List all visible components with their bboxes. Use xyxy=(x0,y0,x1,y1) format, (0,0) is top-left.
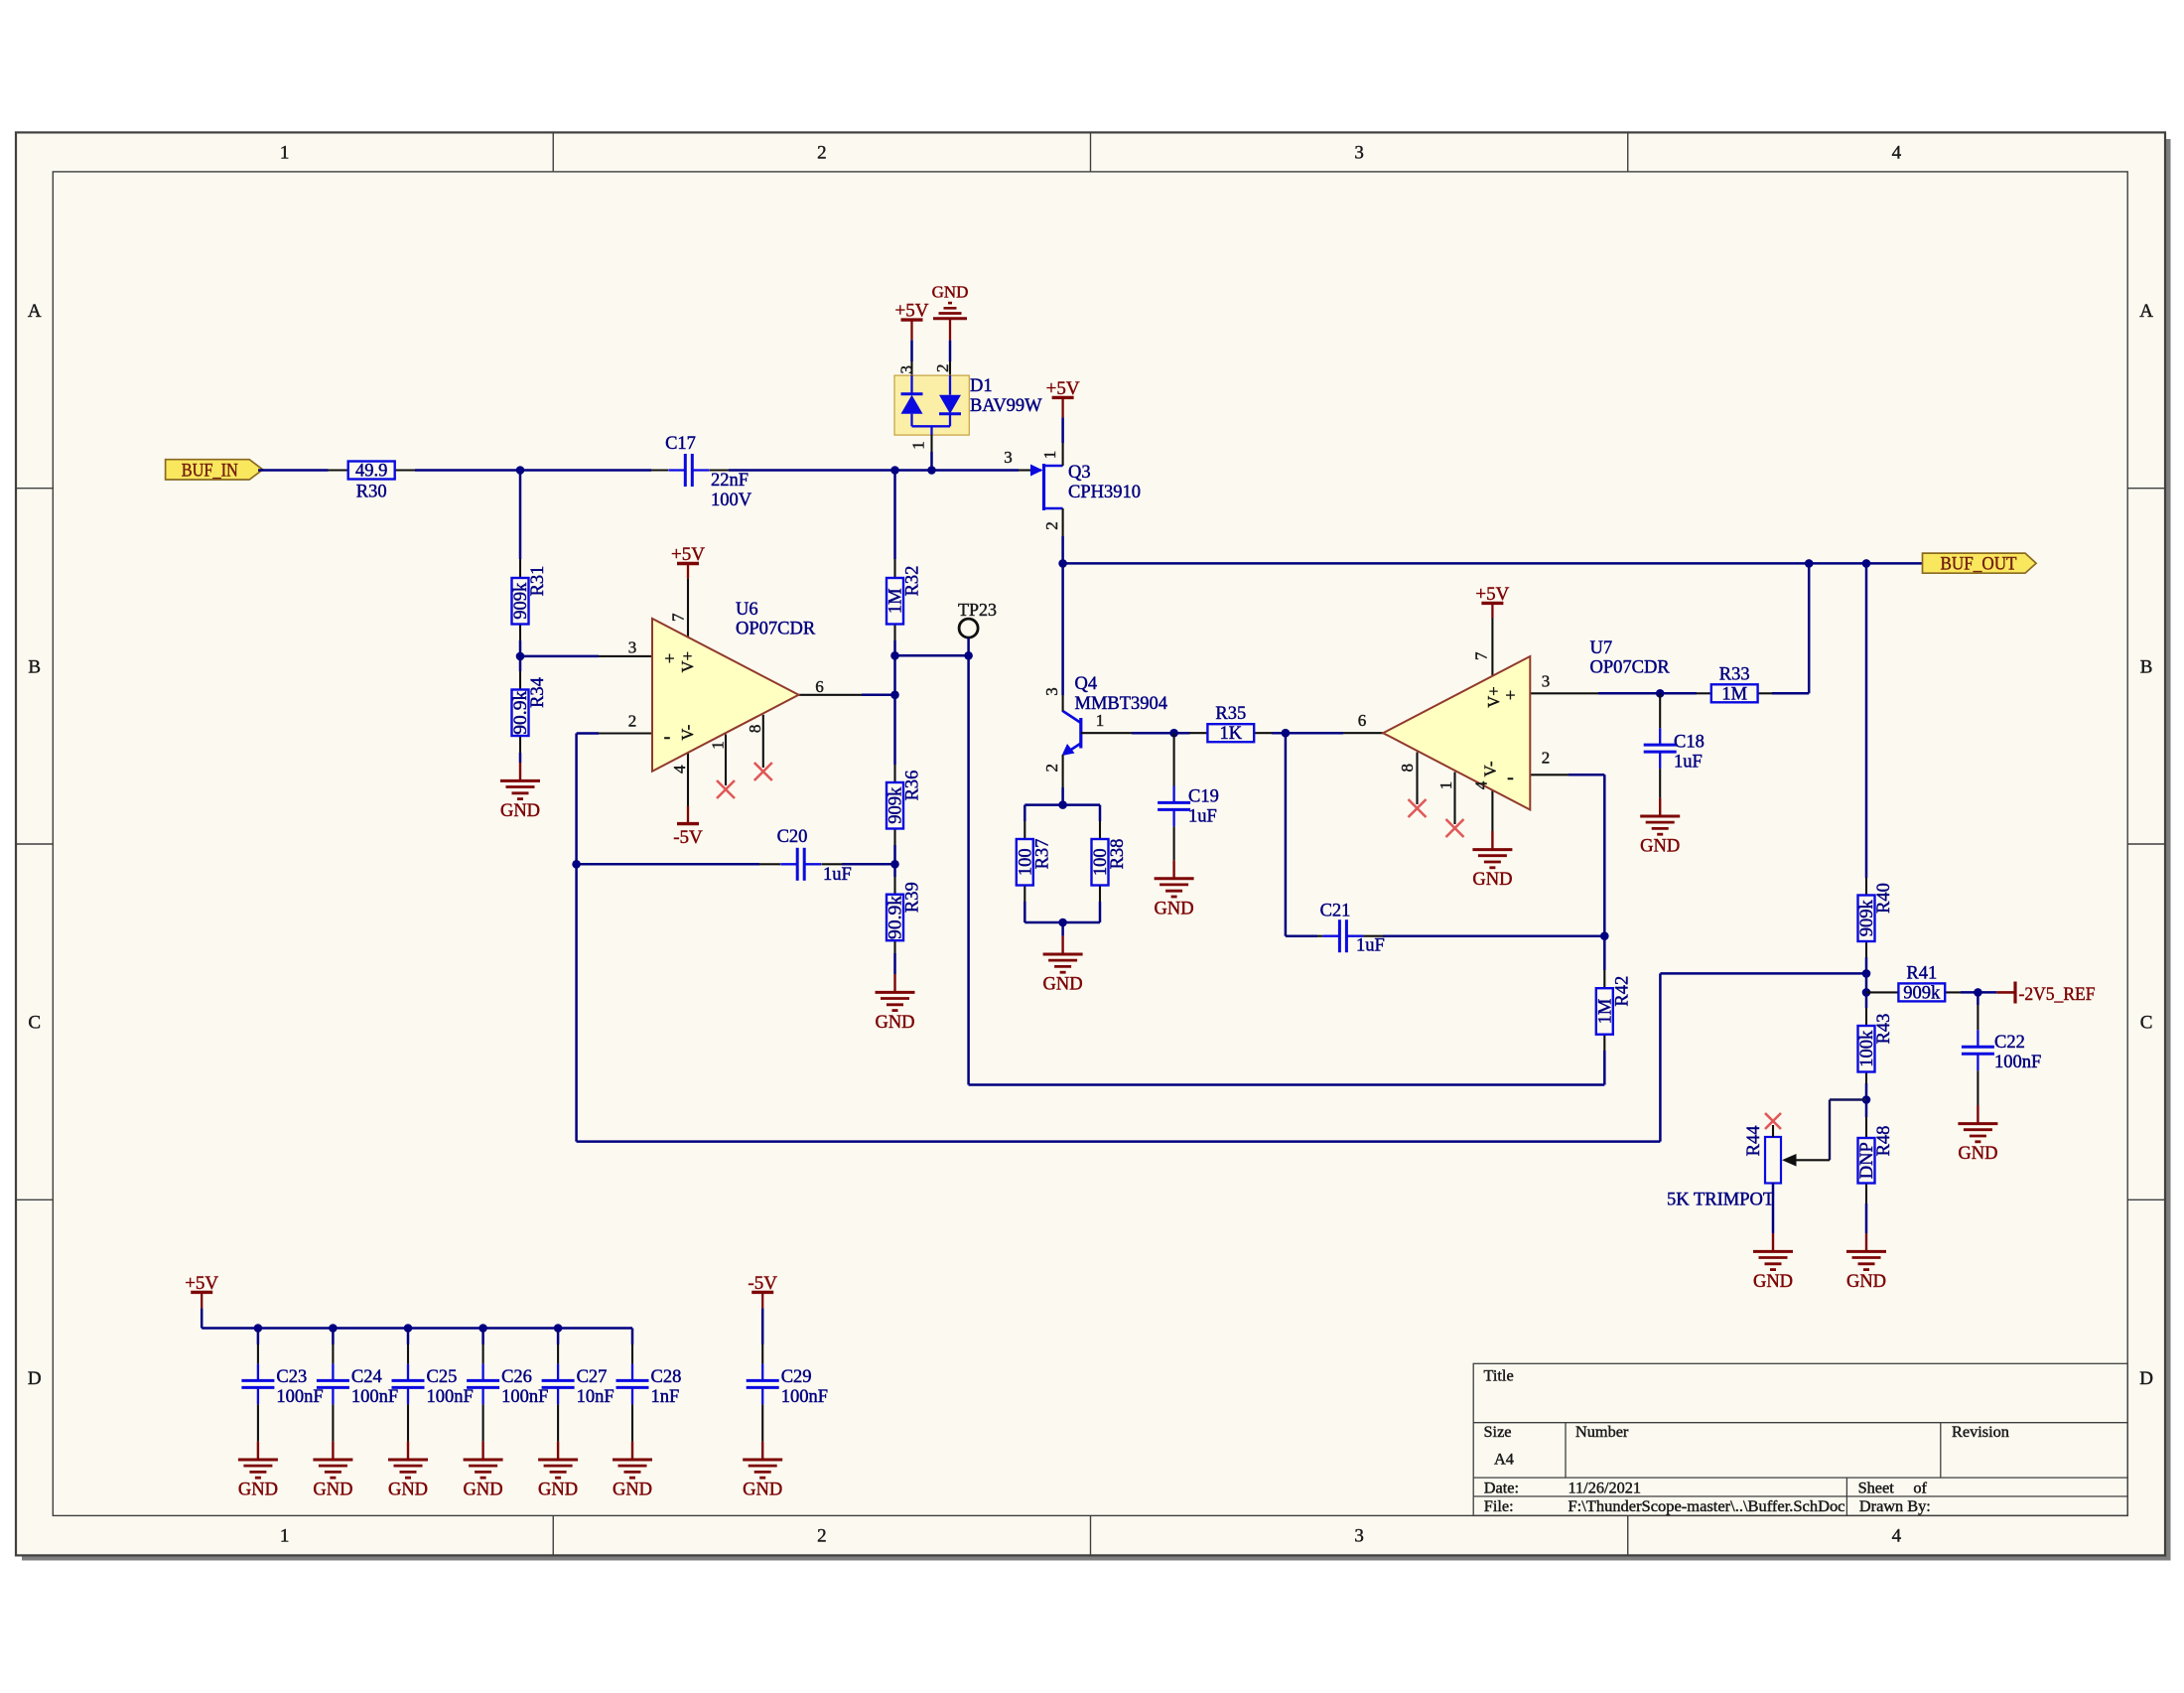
ground GND (C25) xyxy=(388,1442,428,1500)
wire Q4 base to R35 xyxy=(1132,732,1190,735)
junction R33 tap xyxy=(1805,559,1814,568)
svg-text:8: 8 xyxy=(1398,764,1417,773)
resistor R39 90.9k xyxy=(887,877,923,953)
svg-text:GND: GND xyxy=(500,801,540,821)
wire R48 to GND xyxy=(1865,1203,1868,1233)
svg-text:1M: 1M xyxy=(1721,684,1747,704)
ground GND (C19) xyxy=(1155,860,1194,918)
svg-text:GND: GND xyxy=(1846,1272,1886,1292)
svg-text:+: + xyxy=(664,648,674,668)
junction trimpot branch xyxy=(1862,1095,1871,1104)
wire +5V to D1 pin3 xyxy=(910,341,913,361)
svg-text:909k: 909k xyxy=(1903,983,1941,1003)
wire R32 to R36 xyxy=(893,640,896,765)
svg-text:C19: C19 xyxy=(1188,787,1219,807)
junction U6 pin3 node xyxy=(516,652,525,661)
svg-text:-5V: -5V xyxy=(748,1273,777,1294)
svg-text:4: 4 xyxy=(1892,1526,1902,1547)
svg-text:GND: GND xyxy=(1155,899,1194,918)
wire rail to C24 xyxy=(332,1329,335,1345)
svg-text:TRIMPOT: TRIMPOT xyxy=(1694,1191,1774,1210)
svg-text:Sheet: Sheet xyxy=(1858,1478,1895,1496)
svg-text:BUF_IN: BUF_IN xyxy=(182,460,238,481)
wire R44 to GND xyxy=(1772,1184,1775,1234)
power +5V (D1 pin3) xyxy=(895,301,929,341)
svg-text:A: A xyxy=(28,301,42,322)
svg-text:Number: Number xyxy=(1575,1422,1629,1441)
power +5V (U7 pin7) xyxy=(1475,584,1509,618)
svg-text:V-: V- xyxy=(1481,761,1500,776)
svg-text:GND: GND xyxy=(464,1481,503,1500)
svg-text:-2V5_REF: -2V5_REF xyxy=(2019,985,2096,1005)
transistor Q3 CPH3910 xyxy=(1004,443,1141,536)
svg-text:Revision: Revision xyxy=(1952,1422,2009,1441)
svg-text:R44: R44 xyxy=(1744,1125,1764,1156)
svg-text:1nF: 1nF xyxy=(651,1387,680,1407)
svg-text:CPH3910: CPH3910 xyxy=(1068,483,1141,502)
wire input node down to R32 xyxy=(893,471,896,560)
test point TP23 xyxy=(895,600,998,655)
svg-text:R38: R38 xyxy=(1108,839,1128,870)
svg-text:C26: C26 xyxy=(501,1367,532,1387)
resistor R32 1M xyxy=(887,559,923,640)
capacitor C22 100nF xyxy=(1962,992,2041,1105)
wire D1 pin1 to input node xyxy=(930,452,933,471)
svg-text:+5V: +5V xyxy=(1046,378,1080,399)
resistor R43 100k xyxy=(1857,1008,1894,1083)
resistor R36 909k xyxy=(887,765,923,845)
svg-text:1: 1 xyxy=(280,143,290,164)
sheet drop shadow xyxy=(2166,139,2171,1560)
svg-text:2: 2 xyxy=(817,143,827,164)
svg-text:3: 3 xyxy=(1042,687,1061,696)
wire R31 to R34 xyxy=(519,640,522,671)
junction C19 tap xyxy=(1169,729,1178,738)
wire R41 to C22 xyxy=(1961,991,1978,994)
svg-text:GND: GND xyxy=(538,1481,578,1500)
capacitor C18 1uF xyxy=(1644,693,1705,797)
svg-text:BUF_OUT: BUF_OUT xyxy=(1941,554,2017,574)
svg-text:B: B xyxy=(28,656,41,677)
ground GND (R37/R38) xyxy=(1043,936,1083,995)
power -5V (C29) xyxy=(748,1273,777,1309)
title block text xyxy=(1484,1366,2009,1515)
svg-text:A4: A4 xyxy=(1494,1450,1514,1469)
junction C23 tap xyxy=(254,1324,263,1333)
svg-text:GND: GND xyxy=(1753,1272,1793,1292)
svg-text:V+: V+ xyxy=(1484,686,1503,707)
ground GND (C24) xyxy=(313,1442,352,1500)
wire rail to C26 xyxy=(481,1329,484,1345)
junction C18 tap xyxy=(1656,689,1665,698)
svg-text:3: 3 xyxy=(1354,1526,1364,1547)
svg-text:10nF: 10nF xyxy=(577,1387,614,1407)
svg-text:R33: R33 xyxy=(1719,664,1750,684)
svg-text:4: 4 xyxy=(670,765,689,774)
svg-text:GND: GND xyxy=(1472,870,1512,890)
svg-text:MMBT3904: MMBT3904 xyxy=(1075,694,1168,714)
svg-text:2: 2 xyxy=(1042,764,1061,773)
junction C20 left on feedback xyxy=(572,860,581,869)
junction C26 tap xyxy=(478,1324,487,1333)
resistor R37 100 xyxy=(1016,821,1052,902)
svg-text:100nF: 100nF xyxy=(781,1387,828,1407)
svg-text:100nF: 100nF xyxy=(501,1387,548,1407)
ground GND (C23) xyxy=(238,1442,278,1500)
svg-text:D: D xyxy=(2139,1368,2153,1389)
svg-text:GND: GND xyxy=(613,1481,652,1500)
svg-text:R42: R42 xyxy=(1612,976,1632,1007)
wire C17 to Q3 gate xyxy=(729,469,1019,472)
svg-text:+5V: +5V xyxy=(895,301,929,322)
svg-text:Date:: Date: xyxy=(1484,1478,1519,1496)
svg-text:R34: R34 xyxy=(528,677,548,708)
junction R32 tap xyxy=(890,466,899,475)
resistor R31 909k xyxy=(511,559,548,640)
svg-text:C23: C23 xyxy=(276,1367,307,1387)
svg-text:Q3: Q3 xyxy=(1068,463,1091,483)
wire U6 pin2 horizontal xyxy=(577,732,599,735)
resistor R48 DNP xyxy=(1857,1117,1894,1203)
svg-text:5K: 5K xyxy=(1667,1191,1690,1210)
svg-text:-: - xyxy=(664,726,671,748)
junction node IN+ xyxy=(516,466,525,475)
capacitor C19 1uF xyxy=(1158,733,1219,860)
power +5V (decoupling rail) xyxy=(185,1273,218,1309)
svg-text:R48: R48 xyxy=(1874,1126,1894,1157)
resistor R35 1K xyxy=(1190,704,1273,744)
wire R38 bottom stub xyxy=(1099,902,1102,922)
wire +5V to Q3 drain xyxy=(1061,417,1064,443)
svg-text:1uF: 1uF xyxy=(1356,936,1385,956)
wire Q4 emitter to R37/R38 xyxy=(1061,787,1064,805)
svg-text:+: + xyxy=(1505,685,1515,705)
capacitor C27 10nF xyxy=(542,1344,614,1442)
svg-text:R32: R32 xyxy=(903,566,923,597)
svg-text:of: of xyxy=(1913,1478,1927,1496)
wire R38 top stub xyxy=(1099,805,1102,821)
junction C24 tap xyxy=(329,1324,338,1333)
svg-text:Size: Size xyxy=(1484,1422,1512,1441)
wire C20 left xyxy=(577,863,759,866)
ground GND (C28) xyxy=(613,1442,652,1500)
title block xyxy=(1473,1363,2127,1515)
svg-text:100V: 100V xyxy=(711,491,752,510)
svg-text:3: 3 xyxy=(1004,448,1013,467)
wire GND to D1 pin2 xyxy=(949,341,952,361)
junction C20 right xyxy=(890,860,899,869)
capacitor C24 100nF xyxy=(317,1344,398,1442)
resistor R38 100 xyxy=(1091,821,1128,902)
svg-text:-: - xyxy=(1507,767,1514,788)
svg-text:GND: GND xyxy=(743,1481,782,1500)
ground GND (C29) xyxy=(743,1442,782,1500)
svg-text:C29: C29 xyxy=(781,1367,812,1387)
no-connect X pin8 U7 xyxy=(1409,799,1427,817)
svg-text:BAV99W: BAV99W xyxy=(970,396,1042,416)
wire BUF_IN to R30 xyxy=(258,469,329,472)
wire junction to U6 pin3 xyxy=(520,655,599,658)
wire R35 to U7 output xyxy=(1272,732,1343,735)
svg-text:100nF: 100nF xyxy=(351,1387,398,1407)
no-connect X pin1 U7 xyxy=(1446,819,1464,837)
wire output line to BUF_OUT xyxy=(1063,562,1923,565)
svg-text:C28: C28 xyxy=(651,1367,682,1387)
svg-text:C: C xyxy=(28,1013,41,1034)
svg-text:GND: GND xyxy=(1640,837,1680,857)
ground GND (R34) xyxy=(500,763,540,821)
wire Q4 collector xyxy=(1061,563,1064,695)
svg-text:R35: R35 xyxy=(1215,704,1246,724)
svg-text:2: 2 xyxy=(628,712,637,731)
wire Q3 source to output node xyxy=(1061,536,1064,563)
svg-text:GND: GND xyxy=(238,1481,278,1500)
junction C21 left tap xyxy=(1282,729,1291,738)
svg-text:OP07CDR: OP07CDR xyxy=(736,620,816,639)
svg-text:D: D xyxy=(28,1368,42,1389)
power -5V (U6 pin4) xyxy=(673,806,703,848)
wire R37/R38 bottom rail xyxy=(1024,921,1100,924)
capacitor C21 1uF xyxy=(1286,902,1604,956)
ground GND (U7 pin4) xyxy=(1472,831,1512,890)
resistor R30 49.9 xyxy=(329,462,416,502)
svg-text:7: 7 xyxy=(1472,651,1491,660)
junction R40 tap xyxy=(1862,559,1871,568)
svg-text:TP23: TP23 xyxy=(958,600,997,620)
wire feedback to R40/R41 node xyxy=(1660,972,1866,975)
junction C22 tap xyxy=(1974,988,1982,997)
wire R36 to R39 xyxy=(893,845,896,877)
wire R33 up to output xyxy=(1808,563,1811,693)
wire rail to C25 xyxy=(407,1329,410,1345)
svg-text:-5V: -5V xyxy=(673,827,703,848)
svg-text:C18: C18 xyxy=(1674,733,1705,753)
resistor R33 1M xyxy=(1697,664,1772,704)
wire C20 right xyxy=(842,863,895,866)
svg-text:6: 6 xyxy=(1358,711,1367,730)
svg-text:Q4: Q4 xyxy=(1075,674,1098,694)
junction R41 tap xyxy=(1862,988,1871,997)
svg-text:D1: D1 xyxy=(970,376,993,396)
inner frame xyxy=(53,172,2127,1516)
wire input node down to R31 xyxy=(519,471,522,560)
svg-text:Title: Title xyxy=(1484,1366,1514,1385)
transistor Q4 MMBT3904 xyxy=(1042,674,1167,787)
op-amp U7 OP07CDR xyxy=(1343,618,1670,831)
svg-text:3: 3 xyxy=(628,638,637,657)
svg-text:B: B xyxy=(2140,656,2153,677)
wire R40 to R43 xyxy=(1865,957,1868,1008)
svg-text:1: 1 xyxy=(1436,781,1455,790)
svg-text:6: 6 xyxy=(815,677,824,696)
junction pin6 node xyxy=(890,691,899,700)
svg-text:1: 1 xyxy=(709,741,728,750)
svg-text:11/26/2021: 11/26/2021 xyxy=(1569,1478,1642,1496)
svg-text:C20: C20 xyxy=(777,827,808,847)
junction C27 tap xyxy=(554,1324,563,1333)
ground GND (C27) xyxy=(538,1442,578,1500)
wire U7 pin2 right xyxy=(1569,774,1604,776)
svg-text:C22: C22 xyxy=(1994,1033,2025,1053)
svg-text:C21: C21 xyxy=(1320,902,1351,921)
svg-text:OP07CDR: OP07CDR xyxy=(1590,658,1671,678)
capacitor C23 100nF xyxy=(241,1344,323,1442)
svg-text:100nF: 100nF xyxy=(1994,1053,2041,1072)
svg-text:GND: GND xyxy=(1958,1144,1997,1164)
wire junction to R42 xyxy=(1603,936,1606,970)
no-connect X pin8 U6 xyxy=(754,763,772,780)
svg-text:49.9: 49.9 xyxy=(355,462,387,482)
trimpot R44 5K xyxy=(1667,1125,1830,1210)
wire C28 corner xyxy=(631,1329,634,1345)
svg-text:1: 1 xyxy=(280,1526,290,1547)
wire +5V rail xyxy=(202,1327,632,1330)
wire R43 to R48 xyxy=(1865,1083,1868,1117)
capacitor C20 1uF xyxy=(759,827,852,885)
svg-text:22nF: 22nF xyxy=(711,471,749,491)
svg-text:R31: R31 xyxy=(528,566,548,597)
svg-text:4: 4 xyxy=(1472,780,1491,789)
wire R42 bottom run xyxy=(969,1083,1605,1086)
svg-text:100nF: 100nF xyxy=(427,1387,474,1407)
wire rail to GND xyxy=(1061,922,1064,936)
svg-text:GND: GND xyxy=(875,1013,914,1033)
wire U6 pin6 to node xyxy=(862,694,895,697)
wire -5V stub xyxy=(761,1309,764,1344)
port BUF_OUT xyxy=(1923,553,2037,574)
capacitor C29 100nF xyxy=(747,1344,828,1442)
svg-text:R39: R39 xyxy=(903,882,923,913)
junction feedback tap xyxy=(1862,969,1871,978)
svg-text:R30: R30 xyxy=(356,483,387,502)
svg-text:+5V: +5V xyxy=(185,1273,218,1294)
svg-text:C25: C25 xyxy=(427,1367,458,1387)
junction TP23 vertical xyxy=(964,651,973,660)
wire R37/R38 top rail xyxy=(1024,803,1100,806)
svg-text:1uF: 1uF xyxy=(1674,753,1703,773)
svg-text:+5V: +5V xyxy=(671,544,705,565)
svg-text:A: A xyxy=(2139,301,2153,322)
power port -2V5_REF xyxy=(1978,982,2095,1006)
power +5V (Q3 drain) xyxy=(1046,378,1080,418)
svg-text:R40: R40 xyxy=(1874,883,1894,914)
svg-text:2: 2 xyxy=(1542,749,1551,768)
wire BUF_OUT node down to R40 xyxy=(1865,563,1868,878)
junction emitter gnd rail xyxy=(1058,918,1067,927)
ground GND (D1 pin2) xyxy=(932,283,969,341)
svg-text:Drawn By:: Drawn By: xyxy=(1859,1496,1931,1515)
wire R37 top stub xyxy=(1024,805,1026,821)
junction C25 tap xyxy=(404,1324,413,1333)
wire R30 to C17 xyxy=(415,469,651,472)
resistor R41 909k xyxy=(1866,963,1961,1003)
svg-text:3: 3 xyxy=(1354,143,1364,164)
svg-text:C27: C27 xyxy=(577,1367,608,1387)
svg-text:R41: R41 xyxy=(1906,963,1937,983)
wire +5V stub xyxy=(201,1309,204,1329)
svg-text:3: 3 xyxy=(897,365,916,374)
svg-text:2: 2 xyxy=(1042,521,1061,530)
resistor R34 90.9k xyxy=(511,671,548,753)
wire R37 bottom stub xyxy=(1024,902,1026,922)
wire U7 pin2 down xyxy=(1603,775,1606,935)
junction D1 pin1 tap xyxy=(927,466,936,475)
svg-text:GND: GND xyxy=(313,1481,352,1500)
junction emitter rail xyxy=(1058,800,1067,809)
wire to TP23 xyxy=(895,654,969,657)
junction Q3 source / Q4 collector xyxy=(1058,559,1067,568)
svg-text:R43: R43 xyxy=(1874,1014,1894,1045)
svg-text:1: 1 xyxy=(1040,451,1059,460)
junction U7 pin2 / R42 xyxy=(1600,931,1609,940)
power +5V (U6 pin7) xyxy=(671,544,705,579)
svg-text:GND: GND xyxy=(932,283,969,302)
wire rail to C27 xyxy=(557,1329,560,1345)
resistor R40 909k xyxy=(1857,878,1894,957)
wire U6 pin2 down xyxy=(575,734,578,1142)
svg-text:GND: GND xyxy=(1043,975,1083,995)
junction TP23 line xyxy=(890,651,899,660)
ground GND (R44) xyxy=(1753,1233,1793,1292)
wire down to C21 xyxy=(1285,733,1288,936)
wire feedback bottom run xyxy=(577,1140,1661,1143)
wire TP23 down xyxy=(967,655,970,1084)
wire rail to C23 xyxy=(257,1329,260,1345)
diode D1 BAV99W xyxy=(894,361,1042,452)
wire R34 to GND xyxy=(519,753,522,763)
svg-text:R37: R37 xyxy=(1032,839,1052,870)
op-amp U6 OP07CDR xyxy=(599,579,862,806)
ground GND (C18) xyxy=(1640,798,1680,857)
svg-text:File:: File: xyxy=(1484,1496,1514,1515)
svg-text:V-: V- xyxy=(678,725,697,741)
wire R42 to bottom run xyxy=(1603,1051,1606,1085)
ground GND (R48) xyxy=(1846,1233,1886,1292)
svg-text:3: 3 xyxy=(1542,672,1551,691)
svg-text:2: 2 xyxy=(933,363,952,372)
svg-text:C: C xyxy=(2140,1013,2153,1034)
wire feedback up to R40 node xyxy=(1659,973,1662,1141)
wire R39 to GND xyxy=(893,953,896,974)
svg-text:1uF: 1uF xyxy=(823,865,852,885)
ground GND (C26) xyxy=(464,1442,503,1500)
port BUF_IN xyxy=(166,460,263,482)
svg-text:R36: R36 xyxy=(903,771,923,801)
capacitor C25 100nF xyxy=(392,1344,474,1442)
wire trimpot branch xyxy=(1830,1100,1866,1161)
ground GND (R39) xyxy=(875,974,914,1033)
svg-text:F:\ThunderScope-master\..\Buff: F:\ThunderScope-master\..\Buffer.SchDoc xyxy=(1569,1496,1845,1515)
svg-text:100nF: 100nF xyxy=(276,1387,323,1407)
svg-text:C24: C24 xyxy=(351,1367,382,1387)
svg-text:2: 2 xyxy=(817,1526,827,1547)
capacitor C28 1nF xyxy=(616,1344,682,1442)
capacitor C17 22nF 100V xyxy=(651,434,752,510)
svg-text:+5V: +5V xyxy=(1475,584,1509,605)
svg-text:8: 8 xyxy=(746,725,764,734)
frame ticks xyxy=(552,132,554,172)
wire R33 right xyxy=(1772,692,1809,695)
svg-text:1K: 1K xyxy=(1219,724,1242,744)
no-connect X pin1 U6 xyxy=(717,780,735,798)
resistor R42 1M xyxy=(1595,970,1632,1051)
wire U7 pin3 to R33 xyxy=(1598,692,1697,695)
svg-text:1uF: 1uF xyxy=(1188,807,1217,827)
svg-text:GND: GND xyxy=(388,1481,428,1500)
capacitor C26 100nF xyxy=(467,1344,548,1442)
ground GND (C22) xyxy=(1958,1105,1997,1164)
svg-text:1: 1 xyxy=(908,441,927,450)
